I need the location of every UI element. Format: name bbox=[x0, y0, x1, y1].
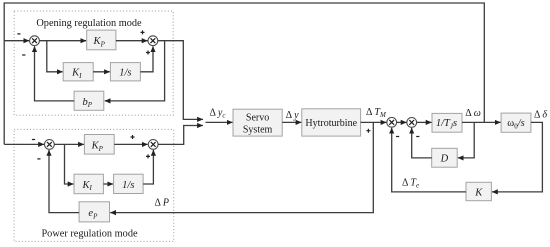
wire: branch down to KI1 bbox=[47, 41, 63, 72]
wire: D out up into S6 bbox=[412, 128, 432, 158]
wire: eP out up into S3 bbox=[49, 150, 79, 213]
svg-text:1/TJs: 1/TJs bbox=[436, 118, 457, 130]
wire: 1/s1 up into S2 bbox=[140, 46, 153, 72]
sign + (S2 bottom) bbox=[146, 51, 150, 55]
svg-text:Hytroturbine: Hytroturbine bbox=[305, 118, 357, 129]
sign - (S1 left) bbox=[17, 33, 20, 35]
wire: S1 to KP1 bbox=[39, 40, 86, 42]
box eP bbox=[79, 202, 109, 222]
wire: S4 output up elbow bbox=[158, 126, 203, 145]
box D bbox=[432, 148, 458, 167]
svg-text:1/s: 1/s bbox=[122, 180, 134, 191]
wire: bP tap down bbox=[105, 41, 165, 101]
wire: KP1 to S2 bbox=[116, 40, 148, 42]
svg-text:D: D bbox=[440, 153, 449, 164]
wire: K out up into S5 bbox=[392, 128, 466, 192]
wire: merged command to Servo bbox=[206, 121, 233, 123]
wire: KI2 to 1/s2 bbox=[103, 183, 113, 185]
box KP (opening) bbox=[87, 30, 116, 50]
box bP bbox=[74, 91, 104, 110]
svg-text:1/s: 1/s bbox=[119, 68, 131, 79]
wire: KI1 to 1/s1 bbox=[93, 71, 110, 73]
wire: KP2 to S4 bbox=[114, 143, 148, 145]
box K bbox=[466, 182, 491, 200]
wire: input to power sum S3 bbox=[4, 143, 44, 145]
box ω0/s bbox=[501, 113, 531, 132]
wire: bP out up into S1 bbox=[35, 46, 75, 101]
box Servo System bbox=[233, 109, 282, 136]
box Hytroturbine bbox=[302, 109, 361, 136]
svg-text:Power regulation mode: Power regulation mode bbox=[41, 229, 138, 240]
wire: Hytroturbine to S5 bbox=[361, 121, 387, 123]
svg-text:Δ y: Δ y bbox=[286, 110, 299, 121]
wire: top feedback loop (Δω to inputs) bbox=[4, 3, 484, 144]
wire: S2 output to down elbow bbox=[158, 41, 203, 120]
wire: 1/s2 up into S4 bbox=[143, 150, 153, 184]
sign + (S4 bottom) bbox=[146, 154, 150, 158]
sign - (S3 bottom) bbox=[37, 158, 40, 160]
sign - (S6 bottom) bbox=[416, 136, 419, 138]
wire: D tap down from Δω line bbox=[458, 122, 474, 157]
summing junction S4 (power right) bbox=[148, 140, 158, 150]
summing junction S6 bbox=[407, 118, 417, 128]
summing junction S3 (power left) bbox=[45, 140, 55, 150]
svg-text:Servo: Servo bbox=[246, 113, 269, 124]
sign - (S1 bottom) bbox=[22, 54, 25, 56]
dashed box: Power regulation mode bbox=[14, 129, 174, 241]
svg-text:Δ δ: Δ δ bbox=[534, 109, 547, 120]
summing junction S2 bbox=[148, 36, 158, 46]
svg-text:System: System bbox=[243, 124, 273, 135]
svg-text:K: K bbox=[474, 187, 483, 198]
sign + (S5 left) bbox=[366, 129, 370, 133]
summing junction S1 bbox=[30, 36, 40, 46]
wire: S5 to S6 bbox=[397, 121, 407, 123]
box 1/s (opening) bbox=[110, 63, 140, 81]
wire: input to opening sum S1 bbox=[4, 40, 29, 42]
svg-text:Δ P: Δ P bbox=[155, 197, 170, 208]
sign - (S3 left) bbox=[32, 139, 35, 141]
sign + (S4 top) bbox=[131, 135, 135, 139]
wire: ΔP tap from TM line down to eP bbox=[110, 122, 373, 212]
wire: S6 to 1/TJs bbox=[417, 121, 432, 123]
sign + (S2 top) bbox=[141, 30, 145, 34]
wire: 1/TJs to ω0/s bbox=[462, 121, 501, 123]
dashed box: Opening regulation mode bbox=[14, 11, 173, 115]
box KI (opening) bbox=[63, 63, 93, 81]
wire: S3 to KP2 bbox=[54, 143, 84, 145]
wire: branch down to KI2 bbox=[65, 144, 74, 184]
summing junction S5 bbox=[387, 117, 397, 127]
svg-text:Δ ω: Δ ω bbox=[465, 108, 480, 119]
box 1/TJs bbox=[432, 113, 462, 132]
box 1/s (power) bbox=[114, 174, 144, 193]
box KP (power) bbox=[84, 135, 114, 155]
box KI (power) bbox=[74, 174, 103, 194]
wire: Servo to Hytroturbine bbox=[282, 121, 301, 123]
sign - (S5 bottom) bbox=[396, 136, 399, 138]
wire: ω0/s out to K (delta feedback) bbox=[492, 122, 542, 191]
svg-text:Opening regulation mode: Opening regulation mode bbox=[36, 18, 142, 29]
